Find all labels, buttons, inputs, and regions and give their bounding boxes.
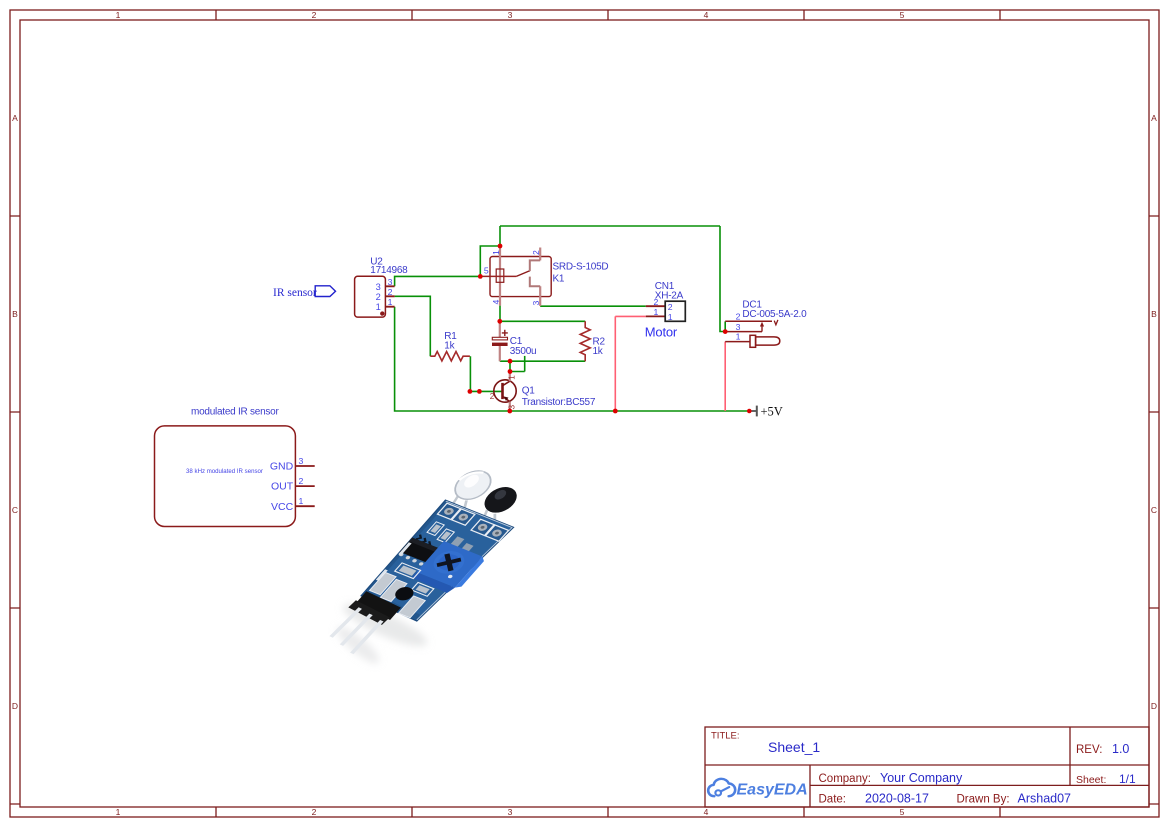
svg-text:1: 1: [736, 332, 741, 342]
svg-text:2: 2: [668, 302, 673, 312]
PCB board: [359, 500, 514, 625]
svg-text:SRD-S-105D: SRD-S-105D: [553, 261, 609, 272]
svg-text:2: 2: [299, 476, 304, 486]
svg-text:1: 1: [116, 807, 121, 817]
small SMD pads row: [423, 522, 479, 554]
svg-text:3500u: 3500u: [510, 346, 537, 357]
SCHEMATIC: [155, 226, 808, 527]
svg-text:2: 2: [531, 250, 541, 255]
wire right vertical to DC1: [720, 226, 725, 332]
resistor R1 1k: [430, 331, 470, 361]
svg-text:3: 3: [531, 301, 541, 306]
svg-text:Q1: Q1: [522, 386, 536, 397]
svg-text:1: 1: [668, 312, 673, 322]
+5V power flag: [749, 404, 783, 418]
svg-text:2: 2: [376, 292, 381, 302]
wire relay pin1 drop: [499, 226, 501, 246]
svg-text:1: 1: [388, 297, 393, 307]
svg-text:5: 5: [900, 807, 905, 817]
wire Q1 collector link: [510, 361, 525, 371]
silkscreen chevrons: [414, 535, 434, 547]
top solder pads: [436, 503, 510, 541]
svg-text:D: D: [12, 701, 18, 711]
wire R1 to Q1 base: [470, 356, 502, 391]
svg-text:Company:: Company:: [819, 773, 871, 785]
svg-text:5: 5: [900, 10, 905, 20]
svg-text:Date:: Date:: [819, 794, 847, 806]
svg-text:REV:: REV:: [1076, 744, 1102, 756]
EasyEDA logo: [708, 779, 807, 799]
wire C1 top to R2 top: [500, 320, 585, 322]
svg-text:38 kHz modulated IR sensor: 38 kHz modulated IR sensor: [186, 468, 263, 475]
power jack DC1: [725, 299, 807, 347]
svg-text:5: 5: [484, 266, 489, 276]
svg-text:IR sensor: IR sensor: [273, 287, 317, 299]
svg-text:2020-08-17: 2020-08-17: [865, 792, 929, 806]
svg-text:2: 2: [490, 392, 495, 401]
svg-text:Drawn By:: Drawn By:: [957, 794, 1010, 806]
svg-text:3: 3: [508, 405, 517, 410]
connector CN1 XH-2A: [645, 281, 686, 340]
svg-text:4: 4: [704, 807, 709, 817]
svg-text:A: A: [1151, 113, 1157, 123]
op-amp U2 sensor connector: [355, 257, 409, 317]
svg-text:1: 1: [299, 496, 304, 506]
svg-text:DC-005-5A-2.0: DC-005-5A-2.0: [742, 309, 807, 320]
mid pad left: [395, 563, 421, 579]
trimmer pot: [416, 541, 482, 588]
svg-text:Sheet:: Sheet:: [1076, 774, 1106, 786]
svg-text:2: 2: [736, 311, 741, 321]
svg-text:C: C: [12, 505, 18, 515]
svg-text:K1: K1: [553, 274, 565, 285]
svg-text:OUT: OUT: [271, 481, 294, 493]
wire U2 pin3 to relay pin5: [395, 276, 481, 286]
svg-text:TITLE:: TITLE:: [711, 731, 740, 742]
svg-text:VCC: VCC: [271, 501, 294, 513]
svg-text:1: 1: [508, 375, 517, 380]
photo soft shadow: [332, 596, 431, 668]
svg-text:4: 4: [704, 10, 709, 20]
svg-text:2: 2: [653, 297, 658, 307]
left edge silk text: [376, 542, 412, 581]
svg-text:GND: GND: [270, 461, 294, 473]
svg-text:1k: 1k: [444, 340, 455, 351]
svg-text:Your Company: Your Company: [880, 771, 963, 785]
capacitor C1 3500u: [492, 321, 536, 361]
svg-text:D: D: [1151, 701, 1157, 711]
svg-text:C: C: [1151, 505, 1157, 515]
white LED legs: [446, 495, 475, 516]
white LED: [448, 467, 498, 504]
title block: [705, 727, 1149, 807]
modulated IR sensor block: [155, 407, 315, 527]
svg-text:1: 1: [491, 250, 501, 255]
wire CN1 pin1 pink: [615, 316, 646, 411]
svg-text:3: 3: [736, 322, 741, 332]
svg-text:4: 4: [491, 300, 501, 305]
wire relay pin1 to pin5 bend: [480, 246, 500, 276]
pin header: [354, 591, 403, 620]
svg-text:XH-2A: XH-2A: [655, 290, 684, 301]
svg-text:1k: 1k: [593, 346, 604, 357]
lower left big pads: [370, 572, 397, 594]
svg-text:Motor: Motor: [645, 325, 678, 340]
wire DC1 pin1 pink: [724, 342, 726, 411]
svg-text:+5V: +5V: [761, 404, 783, 418]
wire relay pin4 to C1: [499, 306, 501, 322]
svg-text:2: 2: [312, 807, 317, 817]
mid pad right: [411, 582, 433, 596]
svg-text:3: 3: [508, 807, 513, 817]
svg-text:Sheet_1: Sheet_1: [768, 739, 820, 755]
wire DC1 pin2 stub: [724, 321, 726, 331]
net label IR sensor: [273, 286, 336, 299]
svg-text:1/1: 1/1: [1119, 772, 1136, 786]
svg-text:2: 2: [312, 10, 317, 20]
IC: [400, 538, 440, 563]
svg-text:1: 1: [116, 10, 121, 20]
svg-text:Transistor:BC557: Transistor:BC557: [522, 397, 596, 408]
wire stub above Q1: [524, 356, 526, 372]
transistor Q1 BC557: [490, 372, 596, 412]
svg-text:1: 1: [376, 302, 381, 312]
svg-text:B: B: [1151, 309, 1157, 319]
black LED: [478, 483, 523, 516]
resistor R2 1k: [580, 321, 605, 361]
svg-text:modulated IR sensor: modulated IR sensor: [191, 407, 279, 418]
svg-text:2: 2: [388, 287, 393, 297]
svg-text:EasyEDA: EasyEDA: [737, 782, 808, 799]
svg-text:1.0: 1.0: [1112, 742, 1129, 756]
svg-text:3: 3: [388, 277, 393, 287]
wire U2 pin2 to R1: [395, 296, 431, 356]
junction dots: [468, 244, 752, 414]
relay K1 SRD-S-105D: [480, 246, 608, 306]
svg-text:3: 3: [376, 282, 381, 292]
wire net top: [500, 225, 720, 227]
svg-text:1: 1: [653, 307, 658, 317]
svg-text:A: A: [12, 113, 18, 123]
svg-text:3: 3: [508, 10, 513, 20]
svg-text:Arshad07: Arshad07: [1018, 792, 1072, 806]
mounting hole: [392, 585, 417, 603]
svg-text:3: 3: [299, 456, 304, 466]
wire U2 pin1 to +5V rail: [395, 307, 750, 411]
svg-text:1714968: 1714968: [370, 265, 408, 276]
wire C1 bottom to R2 bottom: [500, 360, 585, 362]
wire relay pin3 to CN1 pin2: [540, 305, 646, 307]
svg-text:B: B: [12, 309, 18, 319]
IR sensor module photo: [318, 467, 542, 669]
black LED legs: [475, 510, 506, 531]
